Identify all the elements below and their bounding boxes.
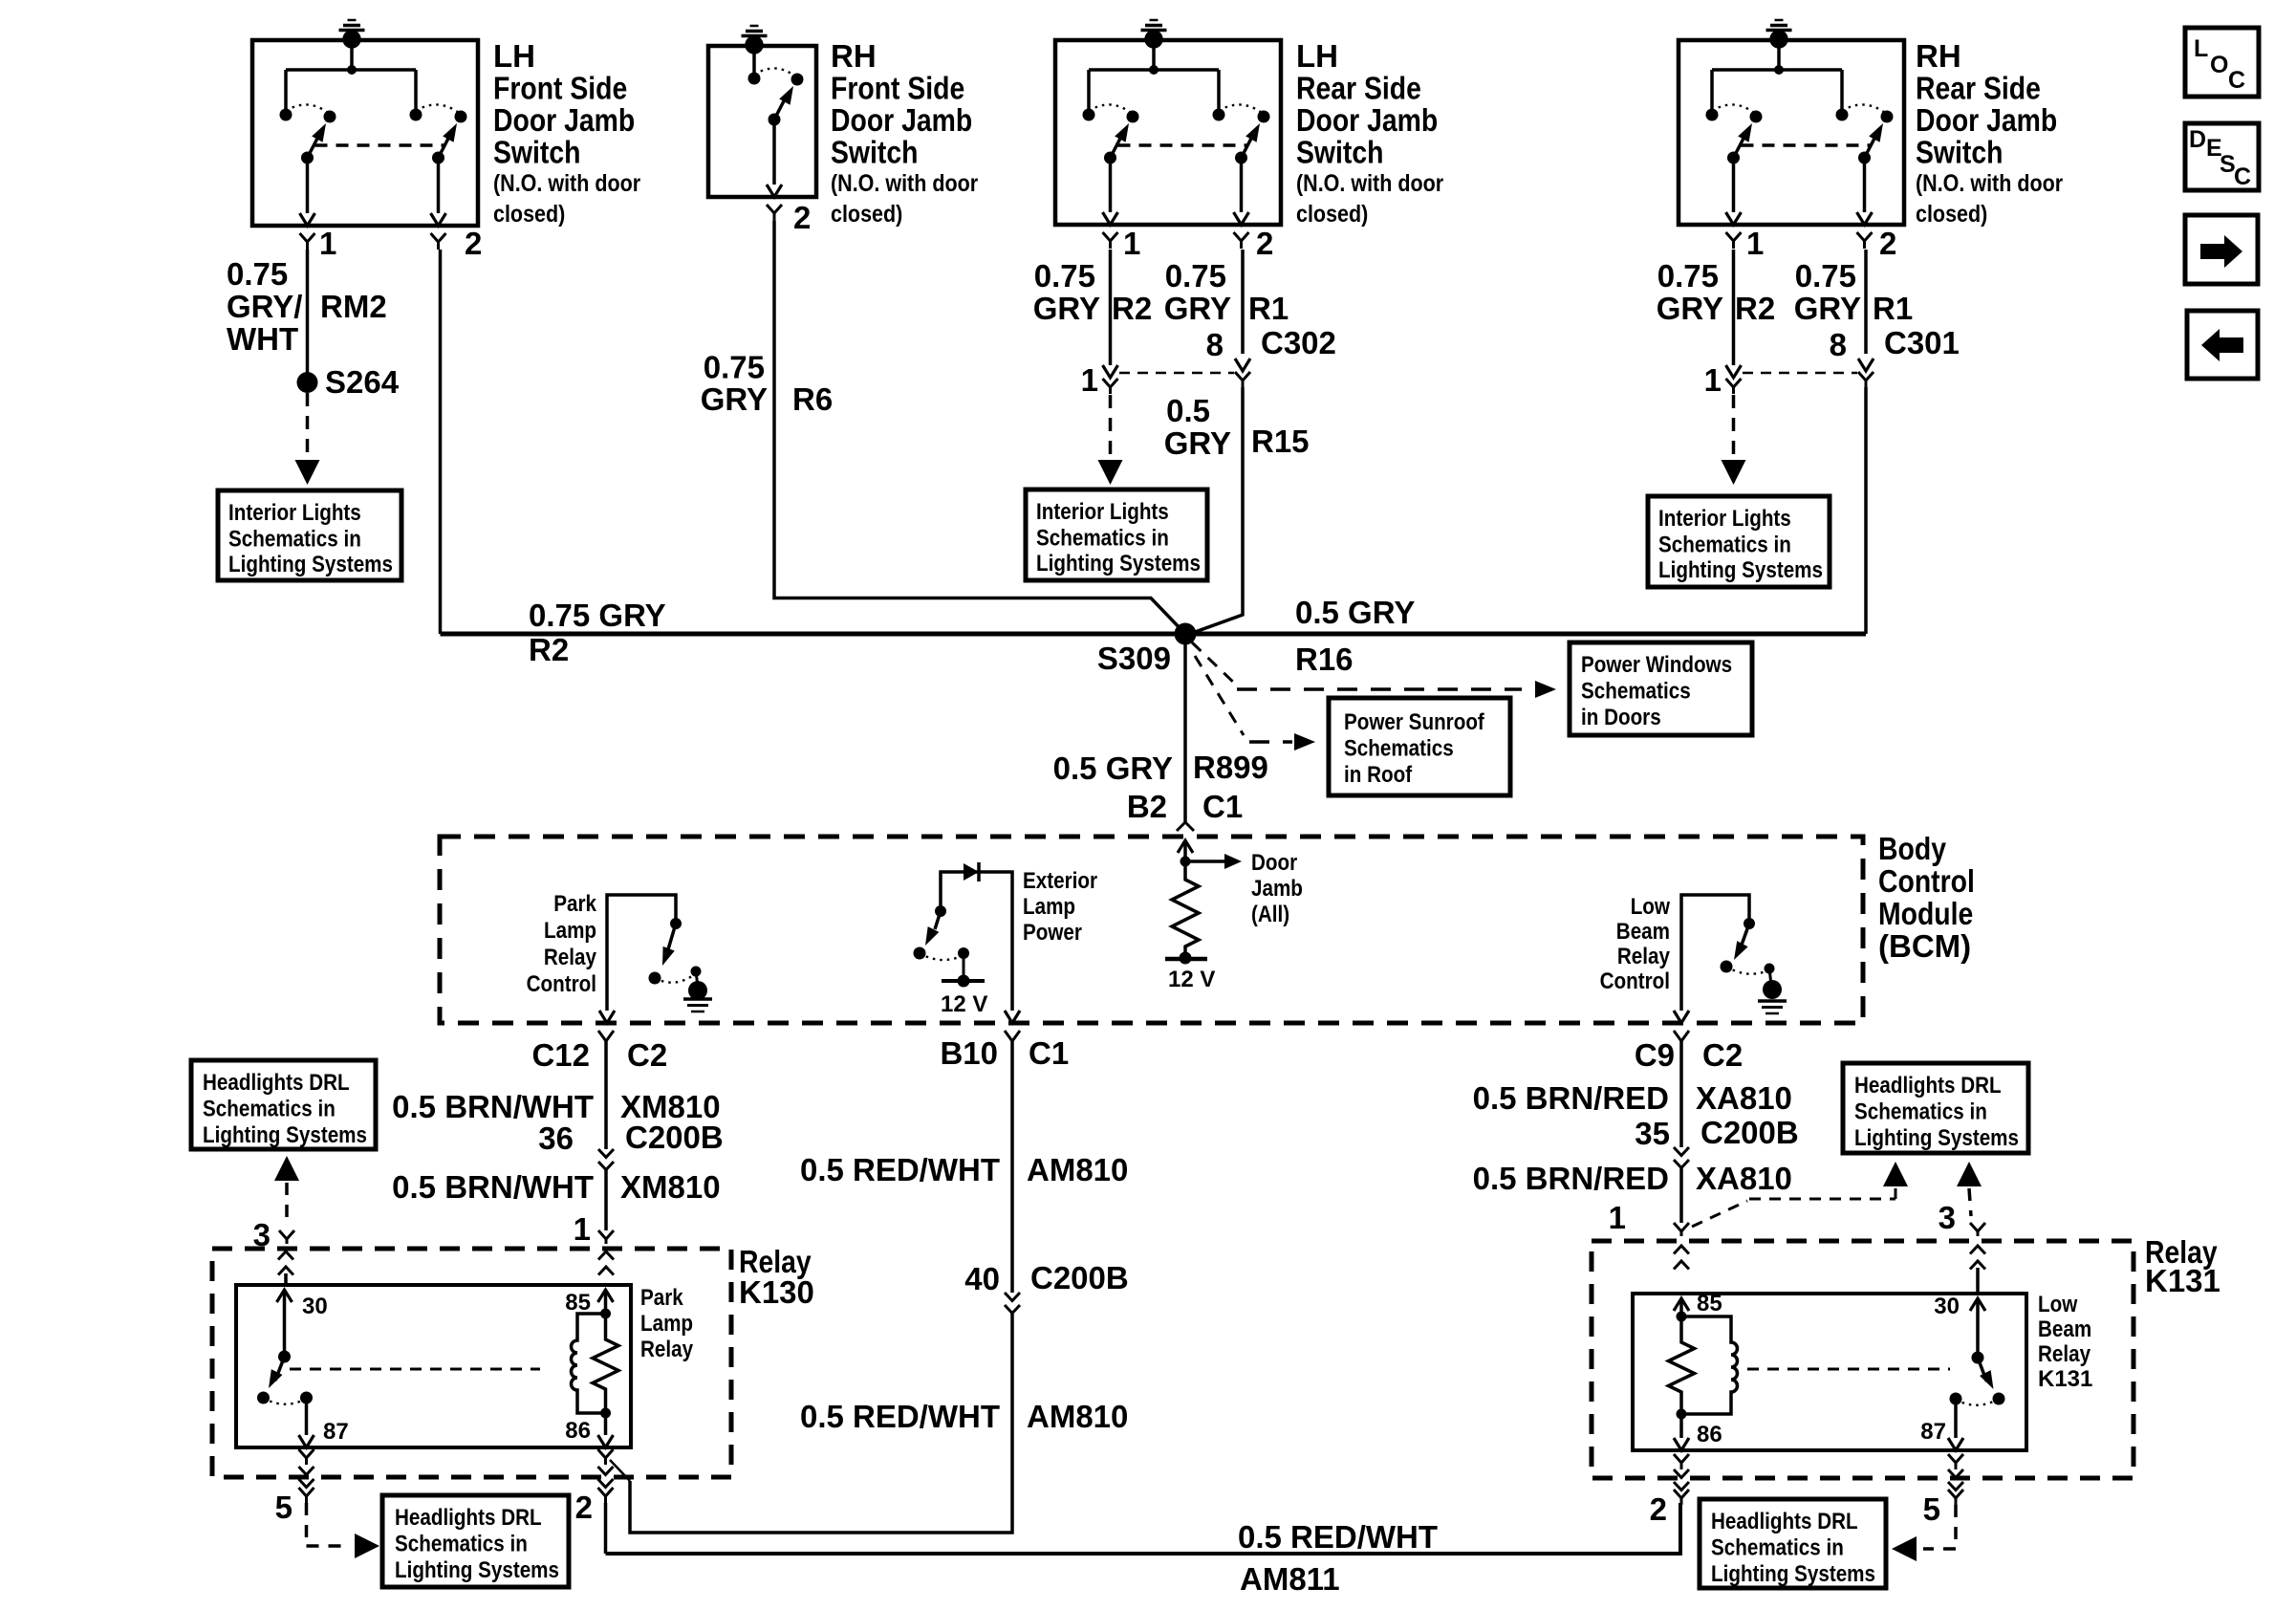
svg-text:2: 2 bbox=[575, 1490, 593, 1525]
icon back arrow button bbox=[2187, 311, 2258, 379]
svg-text:GRY: GRY bbox=[1164, 291, 1231, 326]
svg-text:C12: C12 bbox=[531, 1037, 590, 1073]
pin 86 wire (K130) bbox=[604, 1413, 608, 1435]
svg-text:0.5 RED/WHT: 0.5 RED/WHT bbox=[800, 1152, 1000, 1187]
svg-text:Lighting Systems: Lighting Systems bbox=[395, 1557, 559, 1583]
svg-text:12 V: 12 V bbox=[1168, 967, 1215, 992]
svg-text:R2: R2 bbox=[1112, 291, 1152, 326]
wire R16 from RH rear pin 2 down to bus bbox=[1864, 387, 1868, 634]
svg-text:closed): closed) bbox=[493, 201, 565, 228]
svg-text:C9: C9 bbox=[1635, 1037, 1675, 1073]
svg-text:Headlights DRL: Headlights DRL bbox=[1854, 1073, 2002, 1099]
dashed reference wire K131 pin 1 to DRL box bbox=[1692, 1188, 1895, 1227]
K131 pin 5 exit connector bbox=[1948, 1454, 1963, 1469]
svg-text:30: 30 bbox=[1934, 1294, 1960, 1319]
svg-text:R16: R16 bbox=[1295, 642, 1354, 677]
svg-text:0.75: 0.75 bbox=[1657, 258, 1719, 294]
pin 3 to pin 30 wire bbox=[284, 1273, 288, 1285]
label Body Control Module (BCM) bbox=[1878, 831, 1975, 964]
svg-text:Headlights DRL: Headlights DRL bbox=[1711, 1509, 1858, 1534]
svg-text:0.5 GRY: 0.5 GRY bbox=[1295, 595, 1415, 630]
wire AM810 lower, routed to K130 pin 2 bbox=[630, 1314, 1012, 1534]
ground symbol at RH front switch bbox=[742, 26, 768, 54]
svg-text:Beam: Beam bbox=[2038, 1316, 2091, 1342]
Relay K130 dashed box bbox=[212, 1249, 731, 1477]
dashed reference wire from K131 pin 3 bbox=[1969, 1188, 1971, 1216]
wire RM2 from pin 1 bbox=[306, 250, 310, 373]
svg-text:0.75: 0.75 bbox=[1795, 258, 1856, 294]
connector chevrons into K131 pin 3 bbox=[1970, 1246, 1985, 1270]
svg-text:Schematics: Schematics bbox=[1581, 679, 1691, 705]
connector chevrons into K131 pin 1 bbox=[1674, 1246, 1689, 1270]
svg-text:Schematics in: Schematics in bbox=[203, 1097, 336, 1122]
node S309 bbox=[1175, 623, 1197, 645]
svg-text:C301: C301 bbox=[1884, 325, 1960, 360]
label switch S-RF: RH Front Side Door Jamb Switch description bbox=[831, 38, 978, 228]
svg-text:GRY: GRY bbox=[1033, 291, 1100, 326]
svg-text:C1: C1 bbox=[1202, 789, 1243, 824]
svg-text:Front Side: Front Side bbox=[493, 71, 627, 106]
svg-text:1: 1 bbox=[1746, 226, 1764, 261]
diagonal stub from K130 pin 2 to AM810 bbox=[610, 1460, 630, 1481]
pin 86 wire (K131) bbox=[1679, 1414, 1683, 1438]
svg-text:R899: R899 bbox=[1193, 750, 1268, 785]
connector C200B pass-through (pin 35) bbox=[1674, 1147, 1689, 1168]
wire AM810 upper bbox=[1010, 1041, 1014, 1293]
svg-text:S264: S264 bbox=[325, 364, 400, 400]
svg-text:2: 2 bbox=[1650, 1491, 1667, 1527]
label 0.75 GRY/WHT bbox=[227, 256, 302, 357]
svg-text:86: 86 bbox=[1697, 1422, 1722, 1447]
svg-text:0.5 GRY: 0.5 GRY bbox=[1053, 751, 1173, 786]
svg-text:1: 1 bbox=[1081, 362, 1098, 398]
svg-text:Switch: Switch bbox=[831, 135, 919, 170]
svg-text:R15: R15 bbox=[1251, 424, 1310, 459]
dashed connector line C301 bbox=[1743, 372, 1857, 375]
svg-text:R2: R2 bbox=[529, 632, 569, 667]
svg-text:C200B: C200B bbox=[625, 1120, 724, 1155]
svg-text:0.75: 0.75 bbox=[704, 350, 765, 385]
dashed reference wire from K130 pin 3 bbox=[285, 1183, 289, 1224]
svg-text:in Roof: in Roof bbox=[1344, 762, 1413, 788]
relay coil K130 bbox=[572, 1314, 606, 1413]
BCM low beam relay driver switch bbox=[1681, 895, 1787, 1013]
svg-text:closed): closed) bbox=[1916, 201, 1987, 228]
svg-text:Interior Lights: Interior Lights bbox=[228, 500, 361, 526]
svg-text:K130: K130 bbox=[739, 1274, 814, 1310]
svg-text:Headlights DRL: Headlights DRL bbox=[395, 1505, 542, 1531]
svg-text:40: 40 bbox=[964, 1261, 1000, 1296]
svg-text:XA810: XA810 bbox=[1696, 1080, 1792, 1116]
svg-text:(N.O. with door: (N.O. with door bbox=[493, 170, 640, 197]
icon DESC button bbox=[2185, 123, 2259, 190]
reference arrow into Interior Lights box 2 bbox=[1098, 460, 1123, 485]
reference box: Headlights DRL Schematics in Lighting Systems (upper right) bbox=[1843, 1063, 2028, 1153]
ground symbol at LH front switch bbox=[339, 20, 365, 49]
svg-text:XA810: XA810 bbox=[1696, 1161, 1792, 1196]
svg-text:Relay: Relay bbox=[2038, 1341, 2091, 1367]
wire XA810 lower bbox=[1679, 1168, 1683, 1224]
svg-text:(BCM): (BCM) bbox=[1878, 928, 1971, 964]
svg-text:closed): closed) bbox=[1296, 201, 1368, 228]
svg-text:GRY: GRY bbox=[1794, 291, 1861, 326]
svg-text:Jamb: Jamb bbox=[1251, 876, 1303, 902]
svg-text:RH: RH bbox=[831, 38, 877, 74]
icon forward arrow button bbox=[2185, 215, 2258, 284]
reference box: Headlights DRL Schematics in Lighting Systems (upper left) bbox=[191, 1060, 376, 1149]
svg-text:5: 5 bbox=[275, 1490, 292, 1525]
svg-text:C1: C1 bbox=[1029, 1035, 1069, 1071]
reference box: Interior Lights Schematics in Lighting Systems (middle) bbox=[1026, 490, 1207, 580]
label Park Lamp Relay Control bbox=[527, 891, 597, 997]
connector C301 pin 8 bbox=[1858, 359, 1874, 371]
svg-text:Power Sunroof: Power Sunroof bbox=[1344, 709, 1485, 735]
BCM park lamp relay driver switch bbox=[607, 895, 712, 1012]
svg-text:0.75 GRY: 0.75 GRY bbox=[529, 598, 666, 633]
connector C200B pass-through (pin 40) bbox=[1005, 1293, 1020, 1314]
wire from LH rear pin 1 to connector C302 pin 1 bbox=[1109, 250, 1113, 365]
svg-text:0.5: 0.5 bbox=[1166, 393, 1210, 428]
svg-text:Door Jamb: Door Jamb bbox=[1916, 102, 2057, 138]
svg-text:Lighting Systems: Lighting Systems bbox=[1854, 1125, 2019, 1151]
svg-text:Control: Control bbox=[527, 971, 596, 997]
pin 3 to pin 30 wire (K131) bbox=[1976, 1268, 1980, 1294]
svg-text:Park: Park bbox=[640, 1285, 683, 1311]
svg-text:Rear Side: Rear Side bbox=[1296, 71, 1421, 106]
svg-text:Rear Side: Rear Side bbox=[1916, 71, 2041, 106]
K131 pin 2 exit connector bbox=[1674, 1454, 1689, 1469]
svg-text:Beam: Beam bbox=[1616, 919, 1670, 945]
svg-text:0.5 BRN/RED: 0.5 BRN/RED bbox=[1473, 1080, 1669, 1116]
label 0.5 GRY (R15) bbox=[1164, 393, 1231, 461]
svg-text:0.5 RED/WHT: 0.5 RED/WHT bbox=[800, 1399, 1000, 1434]
svg-text:(All): (All) bbox=[1251, 902, 1289, 927]
dashed reference wire from K130 pin 5 bbox=[307, 1503, 351, 1546]
Relay K131 dashed box bbox=[1592, 1241, 2134, 1478]
svg-text:0.75: 0.75 bbox=[1034, 258, 1095, 294]
svg-text:Schematics: Schematics bbox=[1344, 736, 1454, 762]
svg-text:Park: Park bbox=[553, 891, 596, 917]
svg-text:8: 8 bbox=[1830, 327, 1847, 362]
svg-text:36: 36 bbox=[538, 1120, 574, 1156]
connector C2 half below BCM (C9) bbox=[1674, 1031, 1689, 1041]
wire XA810 upper bbox=[1679, 1041, 1683, 1147]
label Relay K130 bbox=[739, 1244, 814, 1310]
svg-text:LH: LH bbox=[1296, 38, 1338, 74]
label Relay K131 bbox=[2145, 1234, 2220, 1298]
dashed reference wire below S264 bbox=[306, 393, 310, 459]
connector C1 half below BCM (B10) bbox=[1005, 1031, 1020, 1041]
svg-text:(N.O. with door: (N.O. with door bbox=[1916, 170, 2063, 197]
pin 87 wire (K131) bbox=[1954, 1399, 1958, 1438]
svg-text:1: 1 bbox=[1123, 226, 1140, 261]
label switch S-LF: LH Front Side Door Jamb Switch description bbox=[493, 38, 640, 228]
svg-text:1: 1 bbox=[319, 226, 336, 261]
svg-text:R6: R6 bbox=[792, 381, 833, 417]
svg-text:Headlights DRL: Headlights DRL bbox=[203, 1070, 350, 1096]
wire bus 0.75 GRY R2 (left of S309) bbox=[441, 632, 1186, 637]
connector C302 pin 8 bbox=[1235, 359, 1250, 371]
svg-text:5: 5 bbox=[1923, 1491, 1940, 1527]
svg-text:Door Jamb: Door Jamb bbox=[1296, 102, 1438, 138]
reference arrow into Power Windows box bbox=[1535, 681, 1556, 698]
svg-text:Lamp: Lamp bbox=[640, 1311, 693, 1337]
wire R15 continues to S309 bbox=[1187, 387, 1243, 635]
connector half at K130 border (pin 1) bbox=[598, 1230, 614, 1244]
svg-text:AM810: AM810 bbox=[1027, 1152, 1128, 1187]
svg-text:Interior Lights: Interior Lights bbox=[1036, 499, 1169, 525]
label switch S-LR: LH Rear Side Door Jamb Switch description bbox=[1296, 38, 1443, 228]
reference arrow into Headlights DRL box (bottom right) bbox=[1892, 1536, 1917, 1561]
connector chevrons into K130 pin 3 bbox=[278, 1251, 293, 1275]
svg-text:B2: B2 bbox=[1127, 789, 1167, 824]
relay switch arm (K131) bbox=[1950, 1352, 2005, 1405]
switch S-RR: RH Rear Side Door Jamb Switch bbox=[1679, 40, 1904, 249]
label Door Jamb (All) bbox=[1251, 850, 1303, 927]
wire from RH rear pin 1 to connector C301 pin 1 bbox=[1732, 250, 1736, 365]
svg-text:Switch: Switch bbox=[1296, 135, 1384, 170]
svg-text:3: 3 bbox=[253, 1217, 271, 1252]
label 0.75 GRY (R2 branch) bbox=[1033, 258, 1100, 326]
Park Lamp Relay inner box bbox=[236, 1285, 631, 1447]
svg-text:Schematics in: Schematics in bbox=[1854, 1099, 1987, 1125]
wire XM810 upper bbox=[604, 1041, 608, 1149]
svg-text:C2: C2 bbox=[1702, 1037, 1743, 1073]
pin 30 arrow (K130) bbox=[283, 1290, 287, 1357]
reference arrow up into upper-left DRL box bbox=[274, 1156, 299, 1181]
svg-text:R1: R1 bbox=[1873, 291, 1913, 326]
pin 85 arrow (K131) bbox=[1679, 1298, 1683, 1316]
reference box: Interior Lights Schematics in Lighting Systems (right) bbox=[1648, 496, 1830, 587]
reference arrow into Interior Lights box 1 bbox=[295, 460, 320, 485]
reference arrow into Headlights DRL box (bottom left) bbox=[355, 1534, 379, 1558]
svg-text:85: 85 bbox=[1697, 1291, 1722, 1316]
svg-text:Front Side: Front Side bbox=[831, 71, 964, 106]
BCM exterior lamp power circuit with diode bbox=[914, 862, 1013, 1011]
wire R1 from LH rear pin 2 bbox=[1241, 250, 1245, 354]
svg-text:K131: K131 bbox=[2145, 1263, 2220, 1298]
reference arrow up into upper-right DRL box (from K131 pin 1) bbox=[1883, 1162, 1908, 1186]
svg-text:Control: Control bbox=[1600, 968, 1670, 994]
reference box: Headlights DRL Schematics in Lighting Systems (bottom right) bbox=[1700, 1499, 1886, 1588]
svg-text:closed): closed) bbox=[831, 201, 902, 228]
label 0.75 GRY (R2 right) bbox=[1657, 258, 1723, 326]
Low Beam Relay inner box bbox=[1633, 1294, 2026, 1450]
label 0.75 GRY (R1 branch) bbox=[1164, 258, 1231, 326]
svg-text:C302: C302 bbox=[1261, 325, 1336, 360]
svg-text:O: O bbox=[2210, 52, 2228, 78]
svg-text:C: C bbox=[2234, 163, 2251, 190]
svg-text:Exterior: Exterior bbox=[1023, 868, 1097, 894]
switch S-LR: LH Rear Side Door Jamb Switch bbox=[1055, 40, 1281, 249]
svg-text:8: 8 bbox=[1206, 327, 1224, 362]
svg-text:(N.O. with door: (N.O. with door bbox=[831, 170, 978, 197]
reference arrow into Interior Lights box 3 bbox=[1722, 460, 1746, 485]
icon LOC button bbox=[2185, 28, 2259, 97]
svg-text:12 V: 12 V bbox=[941, 991, 987, 1017]
svg-text:Interior Lights: Interior Lights bbox=[1658, 506, 1791, 532]
svg-text:Control: Control bbox=[1878, 863, 1975, 899]
svg-text:C: C bbox=[2228, 67, 2245, 94]
svg-text:3: 3 bbox=[1939, 1200, 1956, 1235]
svg-text:35: 35 bbox=[1635, 1116, 1670, 1151]
label Low Beam Relay K131 bbox=[2038, 1292, 2092, 1392]
svg-text:GRY: GRY bbox=[1657, 291, 1723, 326]
svg-text:1: 1 bbox=[574, 1211, 591, 1247]
relay resistor K131 bbox=[1669, 1316, 1695, 1414]
svg-text:Door Jamb: Door Jamb bbox=[831, 102, 972, 138]
wire R899 from S309 down to BCM bbox=[1183, 634, 1187, 822]
wire AM811 from K130 pin 2 bbox=[604, 1503, 608, 1554]
svg-text:Power Windows: Power Windows bbox=[1581, 652, 1732, 678]
BCM door jamb pull-up resistor to 12 V bbox=[1165, 854, 1242, 965]
reference arrow into Power Sunroof box bbox=[1294, 733, 1315, 751]
svg-text:K131: K131 bbox=[2038, 1366, 2092, 1392]
connector half at K130 border (pin 3) bbox=[279, 1230, 294, 1244]
svg-text:L: L bbox=[2194, 35, 2208, 62]
svg-text:1: 1 bbox=[1704, 362, 1722, 398]
svg-text:0.5 RED/WHT: 0.5 RED/WHT bbox=[1238, 1519, 1438, 1555]
label 0.75 GRY (R6) bbox=[701, 350, 768, 418]
reference box: Power Sunroof Schematics in Roof bbox=[1329, 698, 1510, 795]
svg-text:D: D bbox=[2189, 126, 2206, 153]
svg-text:Low: Low bbox=[1631, 894, 1671, 920]
mechanical dashed link (K131) bbox=[1747, 1368, 1950, 1371]
svg-text:Relay: Relay bbox=[1617, 944, 1671, 969]
svg-text:Schematics in: Schematics in bbox=[1711, 1535, 1844, 1561]
wire R1 from RH rear pin 2 bbox=[1864, 250, 1868, 354]
wire XM810 lower bbox=[604, 1170, 608, 1231]
svg-text:C2: C2 bbox=[627, 1037, 667, 1073]
connector C200B pass-through (pin 36) bbox=[598, 1149, 614, 1170]
reference box: Interior Lights Schematics in Lighting Systems (left) bbox=[218, 490, 401, 580]
svg-text:RM2: RM2 bbox=[320, 289, 387, 324]
svg-text:1: 1 bbox=[1609, 1200, 1626, 1235]
svg-text:Switch: Switch bbox=[1916, 135, 2004, 170]
node S264 bbox=[297, 372, 318, 393]
switch S-RF: RH Front Side Door Jamb Switch bbox=[708, 46, 816, 221]
pin 87 wire (K130) bbox=[305, 1398, 309, 1435]
reference box: Headlights DRL Schematics in Lighting Systems (bottom left) bbox=[382, 1495, 569, 1587]
dashed reference wire to Interior Lights box 2 bbox=[1109, 395, 1113, 459]
svg-text:2: 2 bbox=[793, 200, 811, 235]
connector chevrons into K130 pin 1 bbox=[598, 1251, 614, 1275]
Body Control Module (BCM) dashed box bbox=[440, 837, 1863, 1023]
svg-text:Relay: Relay bbox=[544, 945, 597, 970]
svg-text:Lighting Systems: Lighting Systems bbox=[1036, 551, 1201, 577]
svg-text:RH: RH bbox=[1916, 38, 1961, 74]
svg-text:Door: Door bbox=[1251, 850, 1297, 876]
svg-text:0.75: 0.75 bbox=[227, 256, 288, 292]
relay coil K131 bbox=[1681, 1316, 1738, 1414]
svg-text:Body: Body bbox=[1878, 831, 1947, 866]
svg-text:Lamp: Lamp bbox=[1023, 894, 1075, 920]
dashed reference wire to Interior Lights box 3 bbox=[1732, 395, 1736, 459]
connector half at K131 border (pin 1) bbox=[1674, 1223, 1689, 1236]
pin 30 arrow (K131) bbox=[1976, 1298, 1980, 1358]
connector C2 half below BCM (C12) bbox=[598, 1031, 614, 1041]
reference arrow up into upper-right DRL box (from K131 pin 3) bbox=[1957, 1162, 1982, 1186]
wire AM811 bus bbox=[606, 1503, 1681, 1554]
dashed reference wire S309 to Power Sunroof bbox=[1195, 656, 1244, 735]
label Park Lamp Relay bbox=[640, 1285, 694, 1362]
mechanical dashed link (K130) bbox=[290, 1368, 540, 1371]
svg-text:85: 85 bbox=[565, 1290, 591, 1316]
svg-text:0.5 BRN/RED: 0.5 BRN/RED bbox=[1473, 1161, 1669, 1196]
svg-text:Schematics in: Schematics in bbox=[228, 527, 361, 553]
relay switch arm (K130) bbox=[257, 1351, 313, 1404]
label 0.75 GRY (R1 right) bbox=[1794, 258, 1861, 326]
reference box: Power Windows Schematics in Doors bbox=[1570, 642, 1752, 735]
svg-text:Low: Low bbox=[2038, 1292, 2078, 1317]
svg-text:30: 30 bbox=[302, 1294, 328, 1319]
svg-text:AM810: AM810 bbox=[1027, 1399, 1128, 1434]
svg-text:GRY: GRY bbox=[701, 381, 768, 417]
dashed reference wire S309 to Power Windows bbox=[1192, 642, 1237, 685]
switch S-LF: LH Front Side Door Jamb Switch bbox=[252, 40, 478, 250]
svg-text:87: 87 bbox=[1920, 1419, 1946, 1445]
svg-text:in Doors: in Doors bbox=[1581, 705, 1661, 730]
svg-text:Power: Power bbox=[1023, 920, 1082, 946]
svg-text:Lighting Systems: Lighting Systems bbox=[1711, 1561, 1875, 1587]
svg-text:Schematics in: Schematics in bbox=[1036, 526, 1169, 552]
svg-text:Lighting Systems: Lighting Systems bbox=[203, 1122, 367, 1148]
dashed reference wire from K131 pin 5 bbox=[1923, 1505, 1956, 1549]
svg-text:Door Jamb: Door Jamb bbox=[493, 102, 635, 138]
svg-text:2: 2 bbox=[1879, 226, 1896, 261]
svg-text:GRY: GRY bbox=[1164, 425, 1231, 461]
svg-text:LH: LH bbox=[493, 38, 535, 74]
svg-text:2: 2 bbox=[1256, 226, 1273, 261]
label Exterior Lamp Power bbox=[1023, 868, 1097, 946]
svg-text:87: 87 bbox=[323, 1419, 349, 1445]
connector half at K131 border (pin 3) bbox=[1970, 1223, 1985, 1236]
svg-text:WHT: WHT bbox=[227, 321, 298, 357]
svg-text:C200B: C200B bbox=[1700, 1115, 1799, 1150]
label Low Beam Relay Control bbox=[1600, 894, 1671, 994]
svg-text:Module: Module bbox=[1878, 896, 1973, 931]
svg-text:(N.O. with door: (N.O. with door bbox=[1296, 170, 1443, 197]
K130 pin 2 exit connector bbox=[598, 1449, 614, 1465]
svg-text:2: 2 bbox=[465, 226, 482, 261]
svg-text:B10: B10 bbox=[940, 1035, 998, 1071]
svg-text:XM810: XM810 bbox=[620, 1169, 721, 1205]
svg-text:Switch: Switch bbox=[493, 135, 581, 170]
wire R6 from RH front pin 2 to S309 bbox=[774, 221, 1185, 634]
svg-text:86: 86 bbox=[565, 1418, 591, 1444]
svg-text:Relay: Relay bbox=[640, 1337, 694, 1362]
svg-text:0.5 BRN/WHT: 0.5 BRN/WHT bbox=[392, 1089, 594, 1124]
svg-text:Lamp: Lamp bbox=[544, 918, 596, 944]
svg-text:AM811: AM811 bbox=[1240, 1561, 1340, 1597]
wire R2 from LH front pin 2 down to bus bbox=[439, 250, 443, 634]
wire bus 0.5 GRY R16 (right of S309) bbox=[1185, 632, 1866, 637]
K130 pin 5 exit connector bbox=[299, 1449, 314, 1465]
svg-text:R1: R1 bbox=[1248, 291, 1289, 326]
label switch S-RR: RH Rear Side Door Jamb Switch description bbox=[1916, 38, 2063, 228]
svg-text:Schematics in: Schematics in bbox=[1658, 533, 1791, 558]
svg-text:Schematics in: Schematics in bbox=[395, 1532, 528, 1557]
relay resistor K130 bbox=[593, 1314, 618, 1413]
dashed connector line C302 bbox=[1119, 372, 1234, 375]
svg-text:R2: R2 bbox=[1735, 291, 1775, 326]
ground symbol at LH rear switch bbox=[1141, 20, 1167, 49]
svg-text:Lighting Systems: Lighting Systems bbox=[228, 552, 393, 577]
svg-text:Lighting Systems: Lighting Systems bbox=[1658, 557, 1823, 583]
connector half at BCM border (B2/C1) bbox=[1177, 822, 1194, 831]
svg-text:0.5 BRN/WHT: 0.5 BRN/WHT bbox=[392, 1169, 594, 1205]
pin 85 arrow (K130) bbox=[604, 1290, 608, 1314]
